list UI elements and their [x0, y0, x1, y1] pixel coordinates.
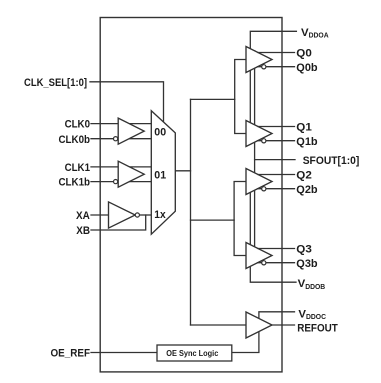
input buffer CLK1/CLK1b [118, 161, 144, 187]
svg-text:Q1: Q1 [296, 122, 312, 134]
wire Q2b output [258, 188, 295, 190]
wire Q0/Q1 input feed [235, 60, 246, 134]
mux input label 01 [154, 170, 166, 182]
wire CLK0b input [91, 138, 152, 140]
inversion bubble Q0b [262, 65, 266, 69]
svg-text:CLK0b: CLK0b [59, 134, 91, 146]
wire CLK1 input [91, 166, 152, 168]
wire VDDOC supply to REFOUT buffer [259, 312, 295, 320]
output driver Q1 [246, 121, 272, 147]
wire Q3 output [258, 248, 295, 250]
pin label VDDOA [301, 27, 329, 40]
chip outline box [100, 18, 282, 372]
svg-text:XA: XA [76, 210, 90, 222]
pin label Q0b [296, 62, 317, 74]
svg-text:Q2: Q2 [296, 170, 312, 182]
svg-text:1x: 1x [154, 209, 166, 221]
OE Sync Logic block [157, 345, 232, 361]
block label OE Sync Logic [166, 348, 218, 358]
wire vertical clock bus [190, 99, 192, 325]
inversion bubble CLK0b [114, 137, 118, 141]
svg-text:Q3b: Q3b [296, 258, 317, 270]
inversion bubble Q2b [262, 187, 266, 191]
svg-text:Q1b: Q1b [296, 136, 317, 148]
wire XB input with feedback to inverter output [91, 215, 146, 230]
wire Q0 output [258, 52, 295, 54]
pin label XB [76, 225, 90, 237]
svg-text:01: 01 [154, 170, 166, 182]
pin label VDDOB [298, 278, 326, 291]
svg-text:CLK1: CLK1 [65, 162, 91, 174]
mux input label 00 [154, 127, 166, 139]
svg-text:XB: XB [76, 225, 90, 237]
wire mux output [175, 170, 190, 172]
svg-text:Q0: Q0 [296, 48, 312, 60]
svg-text:OE_REF: OE_REF [51, 348, 91, 360]
pin label Q1 [296, 122, 312, 134]
pin label Q3 [296, 244, 312, 256]
wire Q2 output [258, 174, 295, 176]
wire VDDOB supply to Q2/Q3 [250, 182, 296, 283]
pin label SFOUT[1:0] [303, 155, 360, 167]
pin label CLK0b [59, 134, 91, 146]
pin label XA [76, 210, 90, 222]
wire CLK1b input [91, 181, 152, 183]
wire SFOUT control line through output drivers [254, 51, 256, 264]
wire CLK0 input [91, 123, 152, 125]
wire Q0b output [258, 66, 295, 68]
svg-text:CLK0: CLK0 [65, 119, 90, 131]
svg-text:SFOUT[1:0]: SFOUT[1:0] [303, 155, 360, 167]
svg-text:OE Sync Logic: OE Sync Logic [166, 348, 218, 358]
wire SFOUT[1:0] pin [255, 159, 295, 161]
pin label Q3b [296, 258, 317, 270]
inversion bubble crystal inverter [135, 213, 139, 217]
pin label Q1b [296, 136, 317, 148]
wire CLK_SEL[1:0] to mux select [90, 82, 164, 123]
svg-text:REFOUT: REFOUT [297, 323, 338, 335]
mux input label 1x [154, 209, 166, 221]
clock select mux [151, 111, 175, 235]
wire Q3b output [258, 262, 295, 264]
pin label OE_REF [51, 348, 91, 360]
wire XA input [91, 214, 109, 216]
pin label CLK_SEL[1:0] [24, 77, 87, 89]
pin label Q2b [296, 184, 317, 196]
svg-text:Q2b: Q2b [296, 184, 317, 196]
pin label REFOUT [297, 323, 338, 335]
output driver Q3 [246, 243, 272, 269]
pin label Q0 [296, 48, 312, 60]
wire OE sync logic to REFOUT buffer [232, 331, 259, 353]
svg-text:Q3: Q3 [296, 244, 312, 256]
wire VDDOA supply to Q0/Q1 [250, 31, 296, 133]
input buffer CLK0/CLK0b [118, 118, 144, 144]
inversion bubble CLK1b [114, 180, 118, 184]
pin label CLK1 [65, 162, 91, 174]
pin label Q2 [296, 170, 312, 182]
svg-text:00: 00 [154, 127, 166, 139]
svg-text:CLK1b: CLK1b [59, 177, 91, 189]
output driver Q0 [246, 47, 272, 73]
svg-text:Q0b: Q0b [296, 62, 317, 74]
wire Q1 output [258, 126, 295, 128]
pin label CLK1b [59, 177, 91, 189]
wire branch to Q0/Q1 feed [191, 98, 235, 100]
wire branch to Q2/Q3 feed [191, 219, 235, 221]
inversion bubble Q3b [262, 261, 266, 265]
output driver Q2 [246, 169, 272, 195]
pin label VDDOC [298, 308, 326, 321]
wire REFOUT output [272, 324, 295, 326]
REFOUT buffer [246, 312, 272, 338]
svg-text:CLK_SEL[1:0]: CLK_SEL[1:0] [24, 77, 87, 89]
pin label CLK0 [65, 119, 90, 131]
wire Q2/Q3 input feed [234, 182, 246, 256]
wire Q1b output [258, 140, 295, 142]
wire OE_REF input [91, 352, 157, 354]
inversion bubble Q1b [262, 139, 266, 143]
wire inverter output to mux 1x [140, 214, 152, 216]
crystal oscillator inverter XA/XB [109, 202, 136, 228]
wire REFOUT buffer input [191, 324, 247, 326]
